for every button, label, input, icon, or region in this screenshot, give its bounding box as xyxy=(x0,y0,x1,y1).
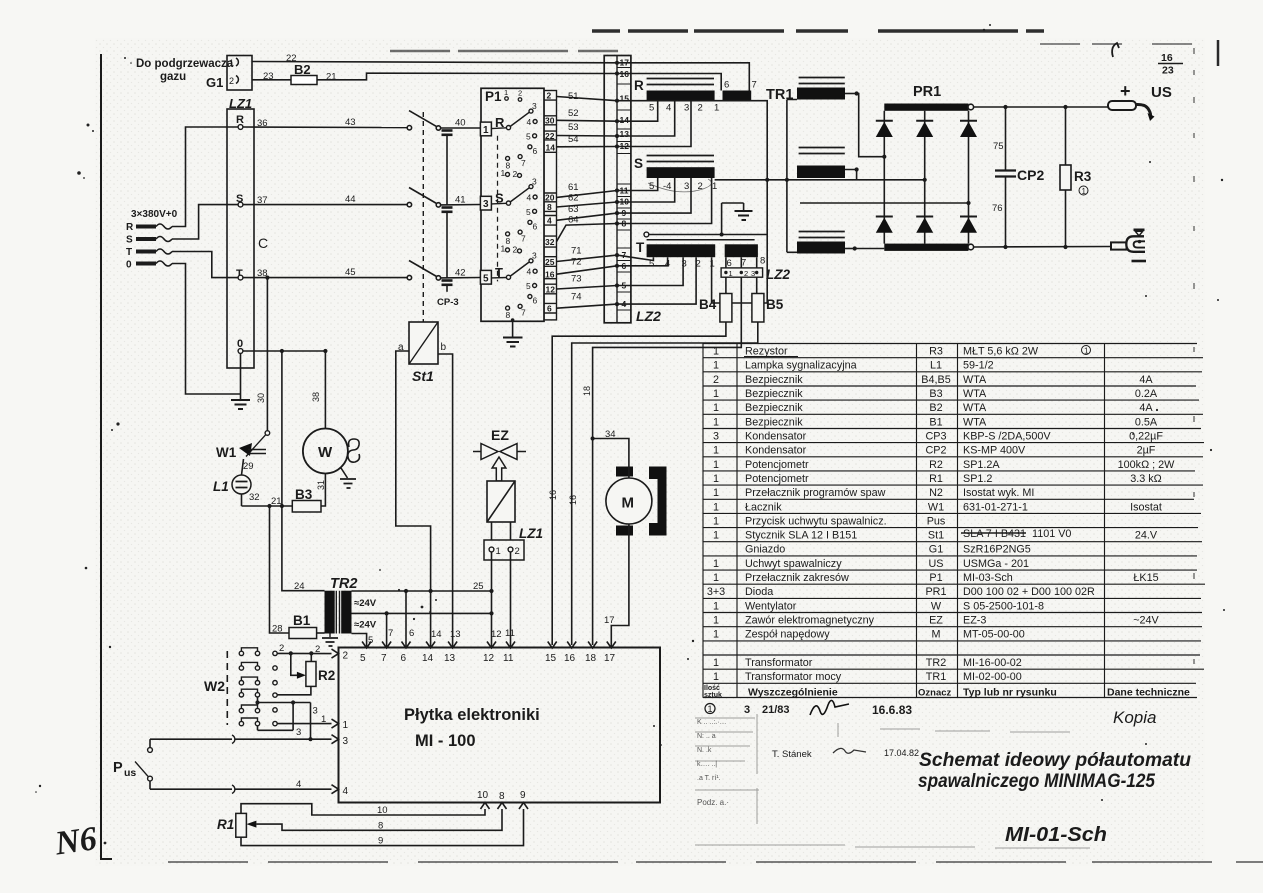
svg-text:N. .k: N. .k xyxy=(697,747,712,754)
board bottom pin arrows xyxy=(481,803,529,810)
capacitor CP3 b xyxy=(442,208,453,278)
diode D2 xyxy=(916,121,933,137)
fuse B2 xyxy=(291,62,317,85)
svg-text:18: 18 xyxy=(585,653,597,664)
svg-text:Wyszczególnienie: Wyszczególnienie xyxy=(748,687,838,699)
wire 9 xyxy=(241,809,524,847)
svg-text:Bezpiecznik: Bezpiecznik xyxy=(745,374,803,386)
svg-text:T: T xyxy=(126,247,132,258)
svg-text:62: 62 xyxy=(568,193,579,204)
fuse B3 xyxy=(292,474,325,513)
svg-text:Dane techniczne: Dane techniczne xyxy=(1107,687,1190,699)
svg-text:MŁT 5,6 kΩ 2W: MŁT 5,6 kΩ 2W xyxy=(963,346,1039,358)
svg-text:3: 3 xyxy=(532,251,537,261)
svg-text:k…. ..|: k…. ..| xyxy=(697,761,717,768)
svg-text:WTA: WTA xyxy=(963,374,987,386)
diode D4 xyxy=(876,217,893,233)
svg-text:R3: R3 xyxy=(1074,169,1092,184)
diode D3 xyxy=(960,121,977,137)
svg-text:30: 30 xyxy=(545,116,555,126)
svg-text:1: 1 xyxy=(713,388,719,400)
svg-text:8: 8 xyxy=(760,256,765,267)
svg-text:3: 3 xyxy=(296,727,301,738)
svg-text:61: 61 xyxy=(568,182,579,193)
svg-text:13: 13 xyxy=(444,653,456,664)
svg-text:2µF: 2µF xyxy=(1137,445,1156,457)
svg-text:3: 3 xyxy=(682,259,687,270)
wire 10 xyxy=(241,804,485,816)
wire 3 net xyxy=(255,697,317,739)
wire 30 lamp feed xyxy=(265,276,269,431)
table row St1 strikethrough type xyxy=(961,528,1071,540)
svg-text:7: 7 xyxy=(622,250,627,260)
svg-text:3: 3 xyxy=(483,199,489,210)
svg-text:G1: G1 xyxy=(206,75,223,90)
wire 1 to pin 1 xyxy=(277,714,331,725)
svg-text:EZ: EZ xyxy=(491,427,509,443)
P1 output terminal column xyxy=(544,91,556,320)
wire tap T3 to LZ2 5 xyxy=(617,257,683,285)
wire B5 to node 16 xyxy=(572,322,758,645)
wire 2 to pin 2 xyxy=(277,643,331,656)
wire 74 xyxy=(557,292,618,309)
W2 pole 6 xyxy=(239,718,277,726)
svg-text:1: 1 xyxy=(713,487,719,499)
svg-text:8: 8 xyxy=(547,202,552,212)
svg-text:7: 7 xyxy=(521,234,526,244)
wire phase C xyxy=(800,202,969,204)
svg-text:1: 1 xyxy=(1082,187,1087,196)
svg-text:3: 3 xyxy=(532,177,537,187)
P1 wafer T xyxy=(491,251,537,321)
svg-text:TR1: TR1 xyxy=(766,87,793,103)
wire 34 xyxy=(591,429,629,478)
svg-text:1: 1 xyxy=(713,671,719,683)
svg-text:W1: W1 xyxy=(928,501,944,513)
wire LZ2 8 S winding end xyxy=(617,178,712,224)
TR1 secondary winding R xyxy=(797,78,859,100)
svg-text:6: 6 xyxy=(401,653,407,664)
sheet top border xyxy=(390,31,1192,51)
fan motor W xyxy=(303,429,360,489)
svg-text:15: 15 xyxy=(545,653,557,664)
wire 61 xyxy=(557,182,618,197)
svg-text:ŁK15: ŁK15 xyxy=(1133,572,1158,584)
earth clamp minus xyxy=(1111,230,1146,261)
svg-text:30: 30 xyxy=(256,393,266,403)
svg-text:Oznacz: Oznacz xyxy=(918,688,952,699)
svg-text:10: 10 xyxy=(477,790,489,801)
switch block W2 xyxy=(204,651,227,725)
svg-text:Rezystor: Rezystor xyxy=(745,346,788,358)
svg-text:22: 22 xyxy=(545,131,555,141)
ground under LZ1 xyxy=(231,394,250,409)
svg-text:45: 45 xyxy=(345,267,356,278)
label: Do podgrzewacza gazu xyxy=(136,58,234,83)
svg-text:1: 1 xyxy=(713,501,719,513)
svg-text:3×380V+0: 3×380V+0 xyxy=(131,209,178,220)
svg-text:52: 52 xyxy=(568,108,579,119)
fuse B4 xyxy=(699,277,732,322)
W2 pole 5 xyxy=(239,705,277,713)
svg-text:.a T. rí¹.: .a T. rí¹. xyxy=(697,775,721,782)
P1 terminal 1 xyxy=(480,122,491,136)
svg-text:St1: St1 xyxy=(928,530,944,542)
wire tap R4 to LZ2 13 xyxy=(617,100,675,136)
push button Pus xyxy=(113,739,152,789)
terminal block LZ1 small xyxy=(484,526,543,560)
drawing title xyxy=(918,749,1191,792)
connector strip LZ2 small xyxy=(721,257,790,282)
svg-text:1: 1 xyxy=(713,360,719,372)
svg-text:44: 44 xyxy=(345,194,356,205)
svg-text:R: R xyxy=(126,222,134,233)
svg-text:64: 64 xyxy=(568,215,579,226)
parts table rows xyxy=(707,346,1175,684)
svg-text:Pus: Pus xyxy=(927,515,946,527)
board top outside labels xyxy=(388,628,502,640)
svg-text:MI - 100: MI - 100 xyxy=(415,732,476,750)
contactor C pole 42 xyxy=(407,261,480,281)
svg-text:16: 16 xyxy=(545,270,555,280)
svg-text:S 05-2500-101-8: S 05-2500-101-8 xyxy=(963,600,1044,612)
svg-text:7: 7 xyxy=(388,628,393,639)
svg-text:M: M xyxy=(622,495,635,512)
diode D1 xyxy=(876,121,893,137)
svg-text:KS-MP 400V: KS-MP 400V xyxy=(963,445,1026,457)
svg-text:≈24V: ≈24V xyxy=(354,598,377,609)
board left pin numbers xyxy=(343,651,349,798)
svg-text:MI-16-00-02: MI-16-00-02 xyxy=(963,657,1022,669)
svg-text:74: 74 xyxy=(571,292,582,303)
svg-text:12: 12 xyxy=(491,629,502,640)
svg-text:CP2: CP2 xyxy=(1017,167,1044,183)
svg-text:3: 3 xyxy=(751,269,755,278)
sheet right border xyxy=(1194,40,1218,664)
svg-text:MI-01-Sch: MI-01-Sch xyxy=(1005,824,1107,846)
svg-text:CP3: CP3 xyxy=(925,431,946,443)
TR1 primary winding S xyxy=(634,156,717,193)
contactor C pole 40 xyxy=(407,111,480,131)
ground on T screen xyxy=(720,203,753,237)
svg-text:R: R xyxy=(634,78,644,93)
wire 71 xyxy=(557,246,618,262)
svg-text:8: 8 xyxy=(378,821,383,832)
wire 8 xyxy=(256,809,502,832)
wire 3 to pin 3 xyxy=(150,735,332,744)
svg-text:Isostat wyk. MI: Isostat wyk. MI xyxy=(963,487,1034,499)
resistor R3 xyxy=(1060,107,1092,247)
welding torch US plus xyxy=(1108,81,1172,121)
svg-text:Przełacznik zakresów: Przełacznik zakresów xyxy=(745,572,849,584)
table row 1 circled 1 xyxy=(1082,346,1091,356)
svg-text:Isostat: Isostat xyxy=(1130,501,1162,513)
svg-text:25: 25 xyxy=(473,581,484,592)
board left pin arrows xyxy=(332,649,339,794)
svg-text:7: 7 xyxy=(381,653,387,664)
svg-text:16: 16 xyxy=(548,490,558,500)
wire 0 terminal down xyxy=(240,354,242,395)
svg-text:5: 5 xyxy=(649,103,654,114)
svg-text:Schemat ideowy półautomatu: Schemat ideowy półautomatu xyxy=(919,749,1191,771)
svg-text:Transformator mocy: Transformator mocy xyxy=(745,671,842,683)
title block faded left texts xyxy=(697,719,729,807)
svg-text:1: 1 xyxy=(343,720,349,731)
svg-text:2: 2 xyxy=(518,89,522,98)
svg-text:21: 21 xyxy=(326,72,337,83)
wire secondary star xyxy=(787,100,797,253)
svg-text:54: 54 xyxy=(568,134,579,145)
svg-text:1: 1 xyxy=(501,168,506,178)
svg-text:St1: St1 xyxy=(412,368,434,384)
svg-text:25: 25 xyxy=(545,257,555,267)
svg-text:1101 V0: 1101 V0 xyxy=(1032,528,1071,540)
svg-text:SLA 7 I B431: SLA 7 I B431 xyxy=(963,528,1026,540)
transformer TR2 xyxy=(325,576,377,634)
svg-text:Stycznik SLA 12 I B151: Stycznik SLA 12 I B151 xyxy=(745,530,857,542)
wire LZ1-1 to wire25 and pin 12 xyxy=(489,552,493,648)
svg-text:0,22µF: 0,22µF xyxy=(1129,431,1163,443)
switch W1 xyxy=(216,431,270,460)
wire 45 xyxy=(243,267,407,278)
parts table grid xyxy=(703,344,1205,698)
diode D6 xyxy=(960,217,977,233)
svg-text:B4,B5: B4,B5 xyxy=(921,374,950,386)
wire 62 xyxy=(557,193,618,208)
svg-text:8: 8 xyxy=(506,310,511,320)
svg-text:34: 34 xyxy=(605,429,616,440)
svg-text:B1: B1 xyxy=(293,613,311,628)
wire LZ1-2 to pin 11 xyxy=(505,552,515,648)
svg-text:TR2: TR2 xyxy=(926,657,946,669)
board bottom pin numbers xyxy=(477,790,526,802)
svg-text:4: 4 xyxy=(296,779,301,790)
wire St1 b to pin 13 xyxy=(438,354,453,648)
wire B4 to node 15 xyxy=(552,322,726,645)
svg-text:63: 63 xyxy=(568,204,579,215)
svg-text:6: 6 xyxy=(409,628,414,639)
board top pin numbers xyxy=(360,653,616,664)
wire 4 to pin 4 xyxy=(150,779,332,794)
wire tap T5 to LZ2 7 xyxy=(617,255,653,260)
svg-text:75: 75 xyxy=(993,141,1004,152)
wire tap S5 to LZ2 11 xyxy=(617,178,658,191)
svg-text:Kondensator: Kondensator xyxy=(745,431,807,443)
svg-text:14: 14 xyxy=(431,629,442,640)
svg-text:1: 1 xyxy=(229,58,234,68)
svg-text:13: 13 xyxy=(620,129,630,139)
title block faded frame xyxy=(695,714,1090,848)
TR1 primary winding R xyxy=(634,78,757,114)
svg-text:Kopia: Kopia xyxy=(1113,708,1156,727)
TR1 secondary winding S xyxy=(797,148,859,180)
svg-text:5: 5 xyxy=(483,273,489,284)
svg-text:17.04.82: 17.04.82 xyxy=(884,748,919,758)
svg-text:2: 2 xyxy=(713,374,719,386)
svg-text:2: 2 xyxy=(513,245,518,255)
svg-text:TR1: TR1 xyxy=(926,671,946,683)
svg-text:SzR16P2NG5: SzR16P2NG5 xyxy=(963,544,1031,556)
svg-text:Lampka sygnalizacyjna: Lampka sygnalizacyjna xyxy=(745,360,857,372)
svg-text:4: 4 xyxy=(527,267,532,277)
svg-text:1: 1 xyxy=(504,88,508,97)
solenoid valve EZ xyxy=(473,427,526,540)
svg-text:Do podgrzewacza: Do podgrzewacza xyxy=(136,58,234,70)
fuse B1 xyxy=(272,613,325,639)
wire 53 xyxy=(557,122,618,136)
wire 0 row xyxy=(243,349,328,353)
svg-text:0.5A: 0.5A xyxy=(1135,416,1158,428)
svg-text:K .. ..:.·…: K .. ..:.·… xyxy=(697,719,727,726)
svg-text:3+3: 3+3 xyxy=(707,586,725,598)
svg-text:W: W xyxy=(931,600,942,612)
svg-text:6: 6 xyxy=(547,304,552,314)
P1 wafer R xyxy=(491,101,537,179)
svg-text:Uchwyt spawalniczy: Uchwyt spawalniczy xyxy=(745,558,842,570)
svg-text:53: 53 xyxy=(568,122,579,133)
svg-text:SP1.2A: SP1.2A xyxy=(963,459,1000,471)
wire 17 motor bottom xyxy=(604,524,629,648)
svg-text:631-01-271-1: 631-01-271-1 xyxy=(963,501,1028,513)
svg-text:6: 6 xyxy=(724,80,729,91)
svg-text:Łacznik: Łacznik xyxy=(745,501,782,513)
svg-text:1: 1 xyxy=(713,473,719,485)
board top pin arrows xyxy=(362,642,616,649)
svg-text:5: 5 xyxy=(526,207,531,217)
wire 43 xyxy=(243,117,407,128)
svg-text:1: 1 xyxy=(714,103,719,114)
table header row xyxy=(704,685,1190,699)
svg-text:S: S xyxy=(126,235,133,246)
svg-text:1: 1 xyxy=(713,459,719,471)
svg-text:1: 1 xyxy=(712,181,717,192)
svg-text:D00 100 02 + D00 100 02R: D00 100 02 + D00 100 02R xyxy=(963,586,1095,598)
svg-text:6: 6 xyxy=(533,146,538,156)
svg-text:23: 23 xyxy=(1162,65,1174,77)
svg-text:71: 71 xyxy=(571,246,582,257)
supply feed R S T 0 xyxy=(126,222,134,271)
wire 22 xyxy=(252,53,617,64)
potentiometer R2 xyxy=(277,653,335,694)
svg-text:Przełacznik programów spaw: Przełacznik programów spaw xyxy=(745,487,886,499)
wire 63 xyxy=(557,204,618,220)
svg-text:4: 4 xyxy=(527,193,532,203)
svg-text:Zespół napędowy: Zespół napędowy xyxy=(745,629,830,641)
svg-text:1: 1 xyxy=(713,402,719,414)
svg-text:4: 4 xyxy=(666,103,671,114)
terminal strip LZ2 xyxy=(604,56,661,325)
svg-text:us: us xyxy=(124,767,136,779)
svg-text:4A: 4A xyxy=(1139,374,1153,386)
node plus bus xyxy=(968,104,1108,110)
wire LZ2 15 winding end xyxy=(617,101,767,303)
range switch P1 xyxy=(481,88,544,321)
svg-text:CP2: CP2 xyxy=(925,445,946,457)
wire tap T1 end xyxy=(712,257,768,303)
svg-text:3: 3 xyxy=(744,704,750,716)
svg-text:B1: B1 xyxy=(929,416,942,428)
wire R phase input xyxy=(172,127,238,227)
sheet number 16/23 xyxy=(1112,43,1183,77)
svg-text:14: 14 xyxy=(620,115,630,125)
svg-text:5: 5 xyxy=(526,281,531,291)
svg-text:16: 16 xyxy=(564,653,576,664)
svg-text:MI-03-Sch: MI-03-Sch xyxy=(963,572,1013,584)
TR1 primary winding T xyxy=(636,232,767,269)
svg-text:R1: R1 xyxy=(929,473,943,485)
svg-text:R2: R2 xyxy=(318,668,335,683)
svg-text:1: 1 xyxy=(321,714,326,725)
svg-text:sztuk: sztuk xyxy=(704,692,722,699)
svg-text:0.2A: 0.2A xyxy=(1135,388,1158,400)
wire TR2 bottom to pin 5 xyxy=(352,634,374,649)
svg-text:4: 4 xyxy=(527,117,532,127)
wire 23 xyxy=(252,71,291,82)
svg-text:1: 1 xyxy=(713,515,719,527)
svg-text:3: 3 xyxy=(343,736,349,747)
diode D5 xyxy=(916,217,933,233)
wire S row common xyxy=(715,178,925,182)
wire 0 input to ground xyxy=(172,264,241,395)
svg-text:0: 0 xyxy=(126,260,132,271)
svg-text:1: 1 xyxy=(713,558,719,570)
svg-text:TR2: TR2 xyxy=(330,576,357,592)
svg-text:2: 2 xyxy=(229,76,234,86)
svg-text:MT-05-00-00: MT-05-00-00 xyxy=(963,629,1025,641)
svg-text:29: 29 xyxy=(243,461,254,472)
svg-text:P: P xyxy=(113,760,123,776)
svg-text:Transformator: Transformator xyxy=(745,657,813,669)
contactor C pole 41 xyxy=(407,188,480,208)
drive motor M xyxy=(606,467,667,536)
svg-text:T. Stánek: T. Stánek xyxy=(772,749,812,760)
svg-text:9: 9 xyxy=(520,790,526,801)
capacitor CP3 c xyxy=(442,281,453,292)
wire S phase input xyxy=(172,205,238,239)
wire phase A xyxy=(857,94,885,157)
svg-text:5: 5 xyxy=(526,132,531,142)
svg-text:Potencjometr: Potencjometr xyxy=(745,459,809,471)
wire pin 7 xyxy=(386,613,388,648)
svg-text:1: 1 xyxy=(713,572,719,584)
svg-text:51: 51 xyxy=(568,91,579,102)
svg-text:N: .. a: N: .. a xyxy=(697,733,716,740)
svg-text:R1: R1 xyxy=(217,817,234,832)
svg-text:3: 3 xyxy=(713,431,719,443)
svg-text:1: 1 xyxy=(483,125,489,136)
svg-text:6: 6 xyxy=(533,222,538,232)
svg-text:G1: G1 xyxy=(929,544,943,556)
svg-text:2: 2 xyxy=(279,643,284,654)
svg-text:2: 2 xyxy=(513,169,518,179)
approval T. Stanek xyxy=(772,748,919,760)
W2 pole 2 xyxy=(239,662,277,670)
svg-text:42: 42 xyxy=(455,268,466,279)
wire 21 lamp row xyxy=(242,496,293,508)
svg-text:Potencjometr: Potencjometr xyxy=(745,473,809,485)
svg-text:73: 73 xyxy=(571,274,582,285)
svg-text:1: 1 xyxy=(713,615,719,627)
svg-text:Ilość: Ilość xyxy=(704,685,720,692)
contactor mechanical link dashed xyxy=(422,112,424,322)
svg-text:Zawór elektromagnetyczny: Zawór elektromagnetyczny xyxy=(745,615,875,627)
svg-text:18: 18 xyxy=(582,386,592,396)
svg-text:Bezpiecznik: Bezpiecznik xyxy=(745,402,803,414)
svg-text:24: 24 xyxy=(294,581,305,592)
svg-text:17: 17 xyxy=(604,615,615,626)
terminal block LZ1 xyxy=(227,96,254,368)
svg-text:L1: L1 xyxy=(930,360,942,372)
